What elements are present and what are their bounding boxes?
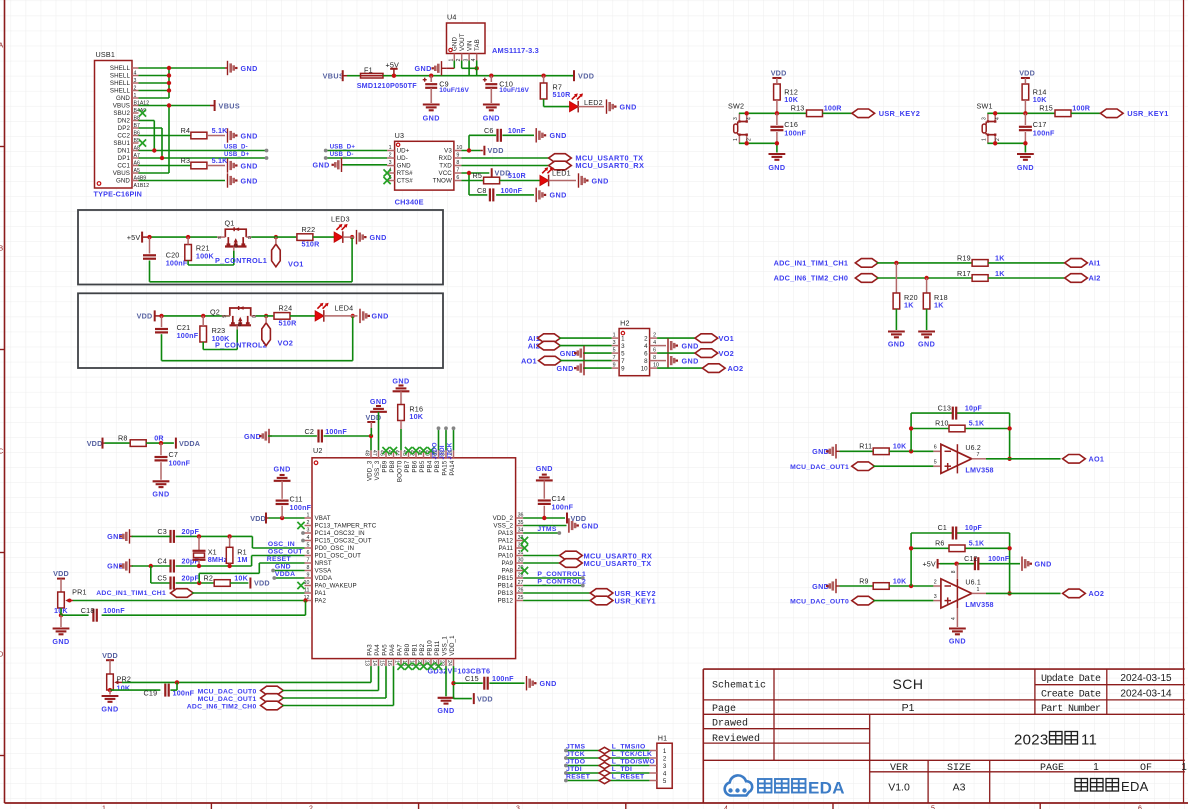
microcontroller U2 GD32VF103CBT6 <box>304 446 524 666</box>
svg-text:PB4: PB4 <box>427 460 434 472</box>
wire Q2 drain to R24 <box>256 315 274 317</box>
svg-text:U3: U3 <box>395 131 405 140</box>
svg-text:4: 4 <box>653 340 656 346</box>
net label P_CONTROL2 (U2) <box>537 578 586 585</box>
svg-text:GND: GND <box>397 163 411 170</box>
svg-text:C5: C5 <box>157 573 167 582</box>
svg-text:2: 2 <box>644 335 648 342</box>
wire C18 to PA2 wire <box>102 601 306 616</box>
svg-text:GND: GND <box>1035 560 1052 569</box>
svg-text:OF: OF <box>1140 763 1152 774</box>
svg-text:RXD: RXD <box>439 155 453 162</box>
svg-text:100nF: 100nF <box>169 458 191 467</box>
wire C5 to R2 <box>176 582 215 584</box>
wire U4 VIN to rail <box>468 61 470 76</box>
svg-text:JTCK: JTCK <box>446 442 453 459</box>
svg-text:DN2: DN2 <box>117 118 130 125</box>
wire R7 to LED2 <box>544 99 570 107</box>
svg-text:7: 7 <box>307 558 310 564</box>
svg-text:P_CONTROL1: P_CONTROL1 <box>215 256 267 265</box>
net label USB_D- (USB1) <box>224 144 248 151</box>
wire GND to R11 <box>840 450 874 452</box>
svg-text:GND: GND <box>918 340 935 349</box>
wire R21 to Q1 gate (P_CONTROL1) <box>188 251 234 265</box>
svg-text:24: 24 <box>446 660 452 666</box>
junction dots SW1 top <box>993 111 1028 115</box>
gnd net flag USB1 row1 <box>225 61 258 75</box>
potentiometer PR2 10K <box>107 674 131 692</box>
gnd net flag C12 <box>1022 557 1052 571</box>
svg-text:ADC_IN1_TIM1_CH1: ADC_IN1_TIM1_CH1 <box>774 259 849 268</box>
wire PR2 bottom to C19 <box>110 689 160 691</box>
svg-text:100nF: 100nF <box>552 503 574 512</box>
ground symbol C7 <box>152 481 169 498</box>
junction dots SW1 bottom <box>993 141 1028 145</box>
svg-text:7: 7 <box>456 168 459 174</box>
svg-text:25: 25 <box>518 595 524 601</box>
svg-text:VDD_2: VDD_2 <box>493 515 514 522</box>
led LED3 <box>331 214 350 243</box>
gnd net flag C6 <box>536 128 566 142</box>
resistor R21 100K <box>185 237 215 260</box>
svg-text:TAB: TAB <box>474 39 481 51</box>
gnd net flag H2 pin9 <box>557 361 587 375</box>
svg-text:A: A <box>0 43 3 50</box>
wire PB15 P_CONTROL1 <box>523 577 582 579</box>
svg-text:GND: GND <box>452 37 459 51</box>
svg-text:VBUS: VBUS <box>113 170 130 177</box>
svg-text:U2: U2 <box>313 446 323 455</box>
svg-text:GND: GND <box>275 563 291 570</box>
svg-text:RESET: RESET <box>566 773 591 780</box>
junction dots box1 rail <box>147 235 354 239</box>
wire VSS_2 <box>523 525 566 527</box>
svg-text:PA9: PA9 <box>502 560 514 567</box>
svg-text:TNOW: TNOW <box>433 178 452 185</box>
svg-text:GND: GND <box>682 341 699 350</box>
svg-text:UD+: UD+ <box>397 148 410 155</box>
port ADC_IN1_TIM1_CH1 <box>774 259 878 268</box>
svg-text:GND: GND <box>550 191 567 200</box>
net label P_CONTROL1 (U2) <box>537 571 586 578</box>
svg-text:R19: R19 <box>957 254 971 263</box>
wire C20 to bottom rail <box>150 237 353 282</box>
wire R22 to LED3 <box>313 236 334 238</box>
svg-text:C18: C18 <box>81 606 95 615</box>
port MCU_USART0_RX (U2) <box>560 551 653 560</box>
svg-text:GND: GND <box>592 176 609 185</box>
gray dot JTDO <box>437 426 441 430</box>
svg-text:9: 9 <box>621 365 625 372</box>
wire U3 GND <box>343 164 387 166</box>
ground symbol PR2 <box>101 690 118 713</box>
svg-text:PB13: PB13 <box>498 590 514 597</box>
wire TNOW to R5 <box>461 180 483 182</box>
svg-text:VO2: VO2 <box>719 349 734 358</box>
svg-text:10uF/16V: 10uF/16V <box>499 87 529 94</box>
title label Update Date <box>1041 673 1101 685</box>
voltage regulator U4 AMS1117-3.3 <box>447 13 539 62</box>
net label OSC_OUT <box>268 549 304 556</box>
wire PB12 <box>523 600 590 602</box>
junction dot VCC <box>467 171 471 175</box>
value label GD32VF103CBT6 <box>428 667 491 676</box>
svg-text:GND: GND <box>888 340 905 349</box>
svg-text:VBUS: VBUS <box>323 71 345 80</box>
svg-text:F1: F1 <box>364 66 373 75</box>
svg-text:GND: GND <box>415 64 432 73</box>
svg-text:CC2: CC2 <box>117 133 130 140</box>
gnd net flag USB1 bottom <box>228 173 258 187</box>
capacitor C9 10uF/16V <box>423 76 470 103</box>
wire VSS_3 <box>378 412 380 451</box>
svg-text:C19: C19 <box>144 689 158 698</box>
port MCU_USART0_TX (U3) <box>549 154 644 163</box>
svg-text:11: 11 <box>1081 731 1097 748</box>
net label JTDI <box>566 766 582 773</box>
svg-text:3: 3 <box>621 343 625 350</box>
svg-text:GND: GND <box>241 161 258 170</box>
net label P_CONTROL1 <box>215 256 267 265</box>
junction dots PR1 <box>59 598 308 617</box>
wire C4 to C5 <box>151 566 171 583</box>
gnd net flag CC2 <box>228 128 258 142</box>
svg-text:7: 7 <box>621 358 625 365</box>
capacitor C12 100nF <box>964 556 1010 570</box>
svg-text:2: 2 <box>747 138 753 141</box>
resistor R24 510R <box>274 304 297 328</box>
title value SCH <box>892 676 923 692</box>
wire R24 to LED4 <box>290 315 315 317</box>
net label OSC_IN <box>268 541 295 548</box>
svg-text:10K: 10K <box>409 412 423 421</box>
svg-text:10K: 10K <box>893 444 906 451</box>
wire C3 row <box>132 535 253 537</box>
svg-text:2: 2 <box>389 153 392 159</box>
svg-text:VDD: VDD <box>254 579 270 588</box>
svg-text:VO2: VO2 <box>278 338 294 347</box>
svg-text:EDA: EDA <box>808 779 845 798</box>
svg-text:C3: C3 <box>157 527 167 536</box>
junction dot inverting U6.1 <box>909 584 913 588</box>
svg-text:R9: R9 <box>859 578 868 585</box>
ground symbol PR1 <box>52 615 69 646</box>
wire LED4 cathode <box>324 315 358 317</box>
port USR_KEY2 <box>852 109 920 118</box>
wire box2 rail <box>162 315 230 317</box>
svg-text:PB5: PB5 <box>419 460 426 472</box>
wire end dot DP1 <box>265 156 269 160</box>
wire R18 to GND <box>926 309 928 330</box>
svg-text:510R: 510R <box>302 240 321 249</box>
ground symbol SW2 <box>768 154 785 172</box>
gnd net flag U3 GND pin <box>313 158 346 172</box>
wire PR1 wiper to PA1... PA2 <box>73 600 305 602</box>
net label USB_D+ (USB1) <box>224 151 250 158</box>
port MCU_DAC_OUT1 (PA5) <box>198 694 284 703</box>
wire feedback mid U6.1 <box>911 547 1010 549</box>
wire JTDI to H1 pin4 <box>566 772 650 774</box>
wire PR2 wiper to PA3 <box>122 666 371 682</box>
svg-text:10pF: 10pF <box>965 405 983 412</box>
svg-text:27: 27 <box>518 580 524 586</box>
title label Page <box>712 704 736 715</box>
wire R15 to port <box>1071 112 1100 114</box>
gray dot RESET <box>564 779 568 783</box>
led LED1 <box>540 167 571 186</box>
svg-text:GND: GND <box>116 178 130 185</box>
svg-text:PB8: PB8 <box>389 460 396 472</box>
svg-text:VDD: VDD <box>137 312 153 321</box>
wire feedback left U6.2 <box>910 413 912 451</box>
capacitor C1 10pF <box>938 525 983 539</box>
wire R13 to port <box>823 112 852 114</box>
svg-text:VDD: VDD <box>578 71 594 80</box>
svg-text:6: 6 <box>934 445 937 451</box>
svg-text:30: 30 <box>518 558 524 564</box>
wire R9 to op-amp <box>889 585 941 587</box>
net label RESET <box>267 556 292 563</box>
svg-text:VO1: VO1 <box>288 260 304 269</box>
svg-text:VBAT: VBAT <box>315 515 331 522</box>
svg-text:13: 13 <box>363 660 369 666</box>
svg-text:GND: GND <box>949 637 966 646</box>
wire main rail <box>431 75 574 77</box>
svg-text:MCU_DAC_OUT0: MCU_DAC_OUT0 <box>790 598 849 605</box>
svg-text:USB_D-: USB_D- <box>330 151 354 158</box>
svg-text:SBU2: SBU2 <box>113 110 130 117</box>
ground symbol R20 <box>888 332 905 349</box>
wire TXD to port <box>461 165 548 167</box>
JLC EDA logo <box>725 775 845 797</box>
power flag VDD (rail) <box>574 70 594 81</box>
wire LED2 to GND <box>578 106 604 108</box>
gnd net flag U4 <box>415 61 447 75</box>
ground symbol SW1 <box>1017 154 1034 172</box>
capacitor C15 100nF <box>465 674 514 690</box>
net label JTMS <box>566 743 585 750</box>
svg-text:7: 7 <box>977 452 980 458</box>
svg-text:PC14_OSC32_IN: PC14_OSC32_IN <box>315 530 365 537</box>
svg-text:C: C <box>0 449 3 456</box>
svg-text:BOOT0: BOOT0 <box>397 460 404 482</box>
svg-text:100nF: 100nF <box>501 186 523 195</box>
svg-text:2: 2 <box>307 520 310 526</box>
svg-text:JTDI: JTDI <box>439 445 446 459</box>
svg-text:CH340E: CH340E <box>395 198 424 207</box>
power flag VDD (VDD_2) <box>567 513 586 524</box>
svg-text:C4: C4 <box>157 556 167 565</box>
port MCU_DAC_OUT1 <box>790 462 874 471</box>
svg-text:GND: GND <box>274 464 291 473</box>
svg-text:GND: GND <box>483 114 500 123</box>
svg-text:10K: 10K <box>234 573 248 582</box>
crystal X1 8MHz <box>193 536 228 566</box>
svg-text:5: 5 <box>663 778 667 785</box>
svg-text:ADC_IN6_TIM2_CH0: ADC_IN6_TIM2_CH0 <box>187 703 257 710</box>
wire end dot DN1 <box>265 149 269 153</box>
svg-text:LED4: LED4 <box>335 304 354 313</box>
wire box1 rail <box>150 236 218 238</box>
title value V1.0 <box>888 781 910 793</box>
svg-text:AO1: AO1 <box>521 356 537 365</box>
svg-text:OSC_OUT: OSC_OUT <box>268 549 304 556</box>
svg-text:GND: GND <box>582 521 599 530</box>
transistor Q1 (PMOS) <box>217 219 252 251</box>
wire C4 row <box>132 565 252 567</box>
svg-text:2: 2 <box>653 333 656 339</box>
wire AI2 to H2 <box>559 345 612 347</box>
svg-text:AI1: AI1 <box>1089 259 1101 268</box>
title value P1 <box>902 702 915 714</box>
power flag +5V (U6.1) <box>923 559 941 569</box>
svg-text:GND: GND <box>116 95 130 102</box>
svg-text:GND: GND <box>152 490 169 499</box>
svg-text:100nF: 100nF <box>492 674 514 683</box>
svg-text:USB_D+: USB_D+ <box>224 151 250 158</box>
svg-text:14: 14 <box>371 660 377 666</box>
gnd net flag H2 pin4 <box>668 338 699 352</box>
svg-text:7: 7 <box>613 355 616 361</box>
svg-text:6: 6 <box>307 550 310 556</box>
ground symbol R18 <box>918 332 935 349</box>
svg-text:10K: 10K <box>117 683 131 692</box>
svg-text:100R: 100R <box>1072 104 1091 113</box>
port MCU_DAC_OUT0 (PA4) <box>198 686 284 695</box>
wire C2 to VDD_3 <box>324 436 371 450</box>
capacitor C20 100nF <box>143 237 188 267</box>
wire RXD to port <box>461 157 548 159</box>
svg-text:LMV358: LMV358 <box>965 465 993 474</box>
svg-text:2: 2 <box>995 138 1001 141</box>
net label L_TCK/CLK <box>612 751 652 758</box>
power flag VDD (PR2) <box>102 651 118 674</box>
svg-text:GND: GND <box>372 312 389 321</box>
capacitor C3 20pF <box>157 527 199 543</box>
title project name 2023moni11 <box>1014 731 1097 748</box>
svg-text:1: 1 <box>1093 762 1099 773</box>
svg-text:C15: C15 <box>465 674 479 683</box>
svg-text:PB0: PB0 <box>404 643 411 655</box>
svg-text:4: 4 <box>644 343 648 350</box>
svg-text:JTCK: JTCK <box>566 751 585 758</box>
svg-text:L_TCK/CLK: L_TCK/CLK <box>612 751 652 758</box>
title label Drawed <box>712 717 748 729</box>
junction dot C15 <box>451 681 455 685</box>
svg-text:A1B12: A1B12 <box>134 183 150 189</box>
wire CC1 to R3 <box>139 165 191 167</box>
transistor Q2 (PMOS) <box>210 306 256 329</box>
gnd net flag CC1 <box>228 158 258 172</box>
port AI2 (network) <box>1065 274 1101 283</box>
wire R16 to BOOT0 <box>400 421 402 451</box>
capacitor C19 100nF <box>144 684 195 698</box>
resistor R5 510R <box>473 171 527 184</box>
svg-text:PA2: PA2 <box>315 598 327 605</box>
svg-text:100K: 100K <box>196 252 215 261</box>
net label L_RESET <box>612 773 645 780</box>
svg-text:PB7: PB7 <box>404 460 411 472</box>
gray dot JTMS <box>557 531 561 535</box>
svg-text:GND: GND <box>244 432 261 441</box>
wire Q1 drain to R22 <box>251 236 296 238</box>
svg-text:MCU_DAC_OUT1: MCU_DAC_OUT1 <box>790 464 849 471</box>
svg-text:SIZE: SIZE <box>947 763 971 774</box>
capacitor C10 10uF/16V <box>483 76 530 103</box>
svg-text:26: 26 <box>518 588 524 594</box>
USB-serial chip U3 CH340E <box>387 131 462 207</box>
svg-text:H2: H2 <box>620 319 630 328</box>
resistor R12 10K <box>774 84 799 113</box>
junction dot RESET <box>197 581 201 585</box>
svg-text:510R: 510R <box>508 171 527 180</box>
title label Part Number <box>1041 703 1101 715</box>
svg-text:GND: GND <box>370 397 387 406</box>
svg-text:3: 3 <box>981 117 987 120</box>
no-connect X U2 bottom pins <box>397 663 442 670</box>
svg-text:4: 4 <box>747 117 753 120</box>
junction dot VBUS <box>167 103 171 107</box>
net label USB_D- (U3) <box>330 151 354 158</box>
svg-text:PA6: PA6 <box>389 644 396 656</box>
wire LED1 to GND <box>549 180 576 182</box>
svg-text:G: G <box>237 323 242 327</box>
svg-text:PB6: PB6 <box>412 460 419 472</box>
op-amp U6.1 LMV358 <box>934 579 994 609</box>
power flag VDDA <box>176 438 200 449</box>
svg-text:Update Date: Update Date <box>1041 673 1101 685</box>
svg-text:R6: R6 <box>935 541 944 548</box>
svg-text:6: 6 <box>653 348 656 354</box>
svg-text:GND: GND <box>540 679 557 688</box>
svg-text:AO2: AO2 <box>728 364 744 373</box>
svg-text:TYPE-C16PIN: TYPE-C16PIN <box>94 190 143 199</box>
wire MCU_DAC_OUT1 to op-amp <box>873 465 941 467</box>
net label P_CONTROL2 <box>215 341 267 350</box>
svg-text:R24: R24 <box>279 304 293 313</box>
svg-text:OSC_IN: OSC_IN <box>268 541 295 548</box>
resistor R17 1K <box>957 269 1005 282</box>
svg-text:VIN: VIN <box>467 40 474 51</box>
net flag diamond JTDO <box>599 762 610 768</box>
title value A3 <box>953 781 966 793</box>
wire VBAT <box>269 517 305 519</box>
svg-text:1: 1 <box>307 513 310 519</box>
net label L_TDO/SWO <box>612 758 655 765</box>
net label JTDO <box>431 442 438 459</box>
svg-text:VDDA: VDDA <box>275 571 295 578</box>
wire V3 node <box>461 135 496 150</box>
resistor R22 510R <box>297 225 320 249</box>
gnd net flag C15 <box>527 676 557 690</box>
svg-text:PB1: PB1 <box>412 643 419 655</box>
svg-text:3: 3 <box>389 160 392 166</box>
svg-text:Schematic: Schematic <box>712 680 766 692</box>
svg-text:CTS#: CTS# <box>397 178 414 185</box>
svg-text:GND: GND <box>423 114 440 123</box>
svg-text:3: 3 <box>663 763 667 770</box>
title label SIZE <box>947 763 971 774</box>
svg-text:+5V: +5V <box>923 560 936 569</box>
power flag VDD (R2) <box>250 578 269 589</box>
net label JTDO <box>566 758 585 765</box>
svg-text:2024-03-15: 2024-03-15 <box>1120 673 1172 684</box>
svg-text:15: 15 <box>378 660 384 666</box>
header H2 <box>612 319 659 376</box>
junction dot C11 <box>280 516 284 520</box>
power flag VBUS (fuse input) <box>323 70 347 81</box>
wire R23 to Q2 gate (P_CONTROL2) <box>203 329 237 349</box>
